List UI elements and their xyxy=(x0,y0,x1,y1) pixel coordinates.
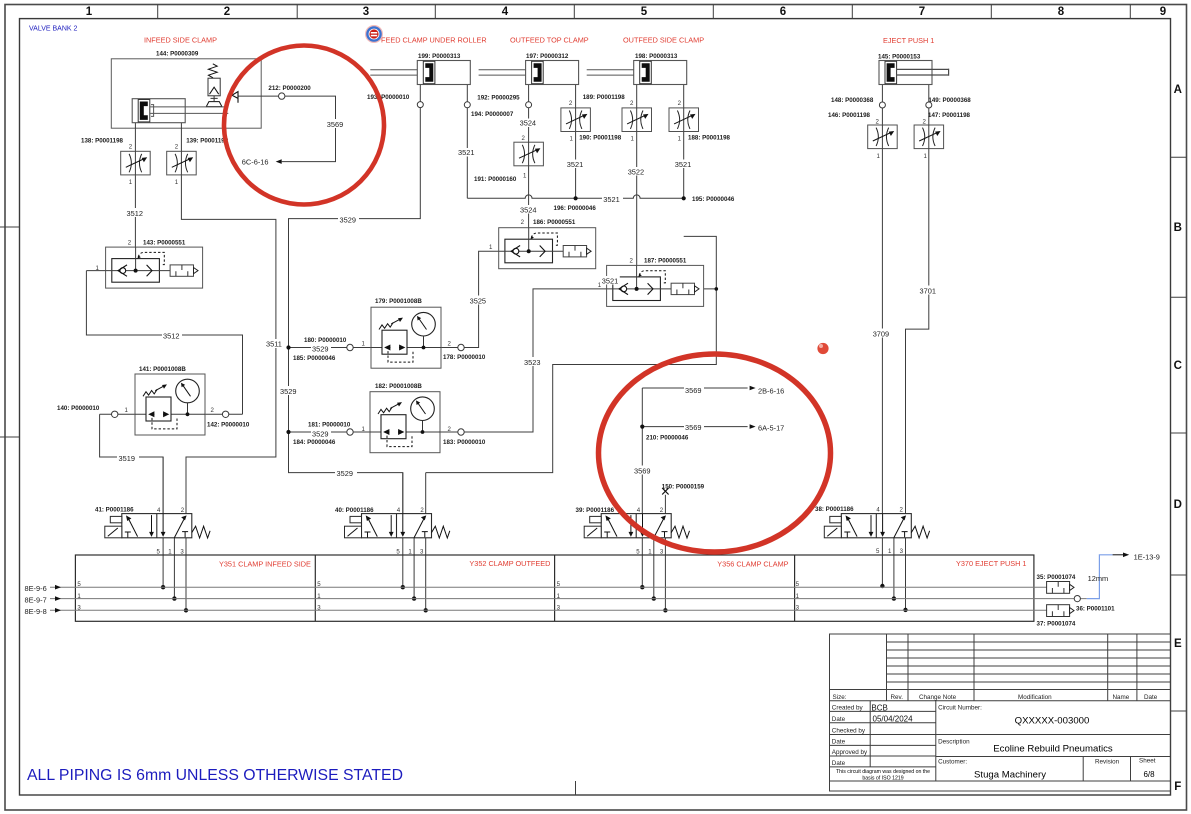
svg-text:189: P0001198: 189: P0001198 xyxy=(583,94,626,101)
svg-text:3525: 3525 xyxy=(470,296,486,305)
svg-text:194: P0000007: 194: P0000007 xyxy=(471,111,514,118)
svg-text:1: 1 xyxy=(598,282,602,289)
svg-text:Customer:: Customer: xyxy=(938,758,967,765)
svg-text:186: P0000551: 186: P0000551 xyxy=(533,219,576,226)
svg-text:3569: 3569 xyxy=(685,386,701,395)
svg-text:3524: 3524 xyxy=(520,205,536,214)
svg-text:2: 2 xyxy=(129,144,133,151)
svg-text:3521: 3521 xyxy=(458,148,474,157)
svg-text:This circuit diagram was desig: This circuit diagram was designed on the xyxy=(836,769,930,775)
svg-text:2B-6-16: 2B-6-16 xyxy=(758,386,784,395)
svg-text:Approved by: Approved by xyxy=(832,749,868,756)
svg-text:A: A xyxy=(1174,84,1182,96)
svg-text:197: P0000312: 197: P0000312 xyxy=(526,53,569,60)
svg-text:2: 2 xyxy=(175,144,179,151)
svg-text:2: 2 xyxy=(128,239,132,246)
svg-text:Rev.: Rev. xyxy=(891,694,904,701)
svg-text:INFEED SIDE CLAMP: INFEED SIDE CLAMP xyxy=(144,36,217,45)
svg-text:B: B xyxy=(1174,222,1182,234)
svg-text:144: P0000309: 144: P0000309 xyxy=(156,51,199,58)
svg-text:BCB: BCB xyxy=(871,704,887,713)
svg-text:39: P0001186: 39: P0001186 xyxy=(576,507,615,514)
svg-text:E: E xyxy=(1174,638,1182,650)
svg-text:12mm: 12mm xyxy=(1088,574,1109,583)
svg-text:179: P0001008B: 179: P0001008B xyxy=(375,298,422,305)
svg-text:182: P0001008B: 182: P0001008B xyxy=(375,383,422,390)
svg-text:C: C xyxy=(1174,360,1182,372)
svg-text:8E-9-8: 8E-9-8 xyxy=(25,607,47,616)
svg-text:2: 2 xyxy=(660,507,664,514)
svg-text:3529: 3529 xyxy=(280,387,296,396)
svg-text:6: 6 xyxy=(780,6,786,18)
svg-text:141: P0001008B: 141: P0001008B xyxy=(139,366,186,373)
svg-text:199: P0000313: 199: P0000313 xyxy=(418,53,461,60)
svg-text:Date: Date xyxy=(832,760,846,767)
svg-text:3529: 3529 xyxy=(337,469,353,478)
svg-text:3521: 3521 xyxy=(602,276,618,285)
svg-text:8: 8 xyxy=(1058,6,1065,18)
svg-text:OUTFEED TOP CLAMP: OUTFEED TOP CLAMP xyxy=(510,36,589,45)
svg-text:184: P0000046: 184: P0000046 xyxy=(293,439,336,446)
svg-text:5: 5 xyxy=(641,6,648,18)
svg-text:1: 1 xyxy=(86,6,93,18)
svg-text:Date: Date xyxy=(1144,694,1158,701)
svg-text:7: 7 xyxy=(919,6,925,18)
svg-text:8E-9-6: 8E-9-6 xyxy=(25,584,47,593)
svg-text:191: P0000160: 191: P0000160 xyxy=(474,176,517,183)
svg-text:188: P0001198: 188: P0001198 xyxy=(688,135,731,142)
svg-text:VALVE BANK 2: VALVE BANK 2 xyxy=(29,26,77,33)
svg-text:1E-13-9: 1E-13-9 xyxy=(1134,553,1160,562)
svg-text:146: P0001198: 146: P0001198 xyxy=(828,112,871,119)
svg-text:149: P0000368: 149: P0000368 xyxy=(928,97,971,104)
svg-text:36: P0001101: 36: P0001101 xyxy=(1076,605,1115,612)
svg-text:05/04/2024: 05/04/2024 xyxy=(873,715,914,724)
svg-text:FEED CLAMP UNDER ROLLER: FEED CLAMP UNDER ROLLER xyxy=(381,36,487,45)
svg-text:3511: 3511 xyxy=(266,340,282,349)
svg-text:178: P0000010: 178: P0000010 xyxy=(443,354,486,361)
svg-text:EJECT PUSH 1: EJECT PUSH 1 xyxy=(883,36,934,45)
svg-text:3529: 3529 xyxy=(312,344,328,353)
svg-text:Y370 EJECT PUSH 1: Y370 EJECT PUSH 1 xyxy=(956,559,1026,568)
svg-text:150: P0000159: 150: P0000159 xyxy=(662,484,705,491)
svg-text:6A-5-17: 6A-5-17 xyxy=(758,424,784,433)
svg-text:Date: Date xyxy=(832,716,846,723)
svg-text:Y352 CLAMP OUTFEED: Y352 CLAMP OUTFEED xyxy=(469,559,550,568)
svg-text:6C-6-16: 6C-6-16 xyxy=(242,157,269,166)
svg-text:3524: 3524 xyxy=(520,119,536,128)
svg-text:40: P0001186: 40: P0001186 xyxy=(335,507,374,514)
svg-text:Description: Description xyxy=(938,739,970,746)
svg-text:3521: 3521 xyxy=(603,195,619,204)
svg-text:195: P0000046: 195: P0000046 xyxy=(692,196,735,203)
svg-text:148: P0000368: 148: P0000368 xyxy=(831,97,874,104)
svg-text:D: D xyxy=(1174,499,1182,511)
svg-text:147: P0001198: 147: P0001198 xyxy=(928,112,971,119)
svg-text:35: P0001074: 35: P0001074 xyxy=(1037,574,1076,581)
svg-text:9: 9 xyxy=(1160,6,1166,18)
svg-text:5: 5 xyxy=(317,581,321,588)
svg-text:138: P0001198: 138: P0001198 xyxy=(81,137,124,144)
svg-text:4: 4 xyxy=(502,6,509,18)
svg-text:41: P0001186: 41: P0001186 xyxy=(95,506,134,513)
svg-text:3569: 3569 xyxy=(685,423,701,432)
svg-text:3519: 3519 xyxy=(119,454,135,463)
svg-text:3709: 3709 xyxy=(873,329,889,338)
svg-text:Revision: Revision xyxy=(1095,758,1120,765)
svg-text:Created by: Created by xyxy=(832,705,864,712)
svg-text:Sheet: Sheet xyxy=(1139,758,1156,765)
svg-text:3522: 3522 xyxy=(628,167,644,176)
svg-text:QXXXXX-003000: QXXXXX-003000 xyxy=(1015,716,1090,727)
svg-text:3: 3 xyxy=(363,6,369,18)
svg-text:196: P0000046: 196: P0000046 xyxy=(554,205,597,212)
svg-text:6/8: 6/8 xyxy=(1143,770,1155,779)
svg-text:187: P0000551: 187: P0000551 xyxy=(644,258,687,265)
svg-text:210: P0000046: 210: P0000046 xyxy=(646,435,689,442)
svg-text:3569: 3569 xyxy=(327,120,343,129)
svg-text:190: P0001198: 190: P0001198 xyxy=(579,135,622,142)
svg-text:Circuit Number:: Circuit Number: xyxy=(938,705,982,712)
svg-text:Checked by: Checked by xyxy=(832,728,866,735)
svg-text:Name: Name xyxy=(1113,694,1130,701)
svg-text:3523: 3523 xyxy=(524,358,540,367)
svg-text:Size:: Size: xyxy=(833,694,847,701)
svg-text:Ecoline Rebuild Pneumatics: Ecoline Rebuild Pneumatics xyxy=(993,744,1113,755)
svg-text:Y356 CLAMP CLAMP: Y356 CLAMP CLAMP xyxy=(717,559,788,568)
svg-text:183: P0000010: 183: P0000010 xyxy=(443,439,486,446)
svg-text:3521: 3521 xyxy=(675,160,691,169)
svg-text:212: P0000200: 212: P0000200 xyxy=(268,85,311,92)
svg-text:3529: 3529 xyxy=(340,215,356,224)
svg-text:181: P0000010: 181: P0000010 xyxy=(308,421,351,428)
svg-text:2: 2 xyxy=(181,507,185,514)
svg-text:145: P0000153: 145: P0000153 xyxy=(878,54,921,61)
svg-text:3512: 3512 xyxy=(127,209,143,218)
svg-text:3529: 3529 xyxy=(312,430,328,439)
svg-text:3512: 3512 xyxy=(163,332,179,341)
svg-text:192: P0000295: 192: P0000295 xyxy=(477,95,520,102)
svg-text:8E-9-7: 8E-9-7 xyxy=(25,595,47,604)
svg-text:Y351 CLAMP INFEED SIDE: Y351 CLAMP INFEED SIDE xyxy=(219,559,311,568)
svg-text:140: P0000010: 140: P0000010 xyxy=(57,405,100,412)
svg-text:193: P0000010: 193: P0000010 xyxy=(367,94,410,101)
svg-text:180: P0000010: 180: P0000010 xyxy=(304,337,347,344)
svg-text:143: P0000551: 143: P0000551 xyxy=(143,239,186,246)
svg-text:3569: 3569 xyxy=(634,466,650,475)
svg-text:38: P0001186: 38: P0001186 xyxy=(815,506,854,513)
svg-text:OUTFEED SIDE CLAMP: OUTFEED SIDE CLAMP xyxy=(623,36,704,45)
svg-text:3701: 3701 xyxy=(920,286,936,295)
svg-text:1: 1 xyxy=(317,593,321,600)
svg-text:Stuga Machinery: Stuga Machinery xyxy=(974,770,1046,781)
svg-text:3: 3 xyxy=(317,604,321,611)
svg-text:Change Note: Change Note xyxy=(919,694,957,701)
svg-text:1: 1 xyxy=(175,179,179,186)
svg-text:F: F xyxy=(1174,781,1181,793)
svg-text:37: P0001074: 37: P0001074 xyxy=(1037,620,1076,627)
svg-text:2: 2 xyxy=(224,6,230,18)
svg-text:142: P0000010: 142: P0000010 xyxy=(207,421,250,428)
svg-text:Date: Date xyxy=(832,739,846,746)
svg-text:ALL PIPING IS 6mm UNLESS OTHER: ALL PIPING IS 6mm UNLESS OTHERWISE STATE… xyxy=(27,767,403,784)
svg-text:198: P0000313: 198: P0000313 xyxy=(635,53,678,60)
svg-text:Modification: Modification xyxy=(1018,694,1052,701)
svg-text:3521: 3521 xyxy=(567,160,583,169)
svg-text:139: P0001198: 139: P0001198 xyxy=(186,137,229,144)
svg-text:4: 4 xyxy=(397,507,401,514)
svg-text:basis of ISO 1219: basis of ISO 1219 xyxy=(862,776,903,782)
svg-text:185: P0000046: 185: P0000046 xyxy=(293,355,336,362)
svg-text:5: 5 xyxy=(636,549,640,556)
svg-text:1: 1 xyxy=(129,179,133,186)
